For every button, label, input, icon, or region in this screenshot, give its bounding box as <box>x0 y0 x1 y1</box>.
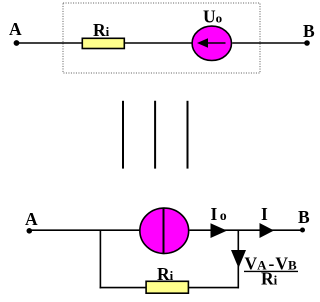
svg-text:I: I <box>261 204 268 224</box>
wire A to current source <box>29 229 139 231</box>
wire resistor to source Uo <box>125 42 192 44</box>
svg-text:B: B <box>298 207 310 227</box>
current source (circle with bar) <box>140 207 189 254</box>
svg-text:B: B <box>303 21 315 41</box>
node B (top) <box>303 21 315 46</box>
resistor Ri (bottom) <box>146 264 188 293</box>
current arrow Io <box>211 204 228 238</box>
label (VA-VB)/Ri <box>244 254 298 289</box>
wire current source to node B <box>190 229 303 231</box>
svg-text:A: A <box>25 209 38 229</box>
dashed enclosure box (Thevenin source) <box>63 3 260 73</box>
wire A to resistor R1 <box>17 42 83 44</box>
resistor Ri (top) <box>82 20 124 49</box>
current arrow down (branch current) <box>231 250 246 268</box>
svg-text:A: A <box>9 19 22 39</box>
wire resistor to right riser <box>189 287 239 289</box>
node A (bottom) <box>25 209 38 234</box>
equivalence bars (three vertical lines) <box>123 101 188 169</box>
wire right riser up to main wire <box>237 230 239 288</box>
wire bottom-left to resistor <box>100 287 147 289</box>
wire junction down-left branch <box>99 230 101 288</box>
wire source Uo to node B <box>232 42 307 44</box>
current arrow I <box>260 204 275 238</box>
node A (top) <box>9 19 22 46</box>
node B (bottom) <box>298 207 310 233</box>
voltage source Uo <box>192 7 231 61</box>
